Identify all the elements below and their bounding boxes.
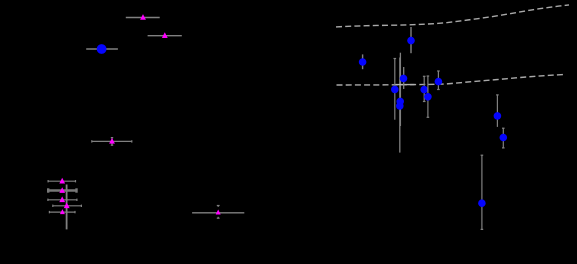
right panel: point R7 y-error bar with caps [427,76,430,117]
left cluster row5: x-error bar with caps [49,211,75,213]
right panel: point R5a blue circle [396,98,404,106]
left cluster row4: x-error bar with caps [53,205,82,207]
right panel: point R1 blue circle [359,58,367,66]
left panel: point T4 x-error bar [192,212,244,214]
right panel: point R8 blue circle [435,78,443,86]
left panel: point T4 y-error upper cap [217,206,220,207]
right panel: point R6 y-error bar with caps [423,76,426,101]
right panel: point R3 y-error bar [403,67,405,89]
left panel: point T1 x-error bar [126,17,160,19]
right panel: point R9 blue circle [494,112,502,120]
left cluster row2: thick x-error bar with caps [48,188,76,192]
right panel: point R1 y-error bar [362,54,364,69]
right panel: point R3 blue circle [400,75,408,83]
right panel: point R2 blue circle [407,37,415,45]
model curve lower dashed [337,74,567,85]
left cluster row3: magenta triangle [59,196,65,202]
left panel: point T2 magenta triangle [162,32,168,38]
right panel: point R6 blue circle [420,86,428,94]
left cluster row4: magenta triangle [64,202,70,208]
right panel: point R10 y-error bar with caps [502,128,505,148]
right panel: hidden point x-error bar on dashed line [396,84,415,86]
right panel: point R10 blue circle [500,134,508,142]
left cluster row5: magenta triangle [60,209,65,214]
left cluster row3: x-error bar with caps [48,199,77,201]
left cluster row1: magenta triangle [59,178,65,184]
left panel: point T4 magenta triangle [216,210,221,215]
right panel: point R9 y-error bar with caps [496,95,499,127]
left panel: point T1 magenta triangle [140,14,146,20]
left cluster row1: x-error bar with caps [48,180,75,182]
right panel: point R5b blue circle [396,102,404,110]
right panel: point R11 blue circle [478,199,486,207]
model curve upper dashed [336,5,569,27]
left panel: point T2 x-error bar [148,35,182,37]
right panel: point R5a long y-error bar [399,53,401,126]
right panel: point R7 blue circle [424,93,432,101]
left cluster row2: magenta triangle [59,187,65,193]
right panel: point R4 y-error bar with top cap [394,59,397,120]
right panel: point R5b long y-error bar [399,58,401,153]
left panel: point T3 magenta triangle [109,138,115,144]
right panel: point R11 y-error bar with caps [481,155,484,229]
left panel: point C1 x-error bar [86,48,118,50]
left panel: point T3 x-error bar with caps [92,140,132,142]
right panel: point R4 blue circle [391,86,399,94]
right panel: point R8 y-error bar with caps [437,71,440,90]
left cluster: vertical y-error bar of row4 [66,185,68,230]
left panel: point T3 y-error bar with caps [111,138,113,146]
right panel: point R2 y-error bar [410,27,412,53]
left panel: point C1 blue circle [97,44,107,54]
left panel: point T4 y-error lower cap [217,217,220,218]
